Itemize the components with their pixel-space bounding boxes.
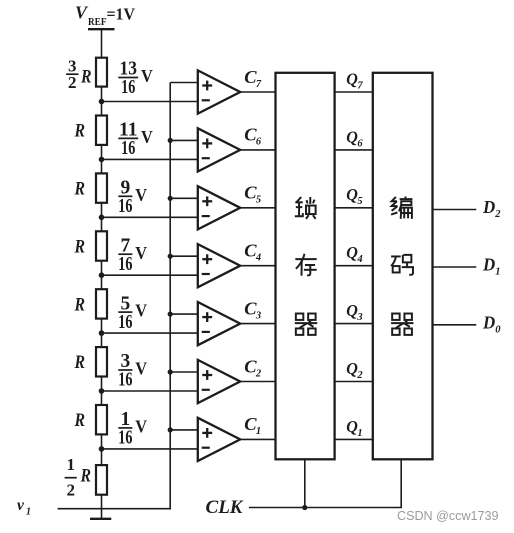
svg-text:V: V xyxy=(135,301,147,321)
svg-text:R: R xyxy=(74,179,85,200)
svg-text:0: 0 xyxy=(495,324,501,335)
svg-text:6: 6 xyxy=(357,138,363,149)
svg-text:16: 16 xyxy=(118,370,132,391)
svg-text:R: R xyxy=(74,236,85,257)
svg-text:REF: REF xyxy=(88,17,107,28)
svg-text:V: V xyxy=(135,417,147,437)
svg-text:1: 1 xyxy=(495,267,500,278)
svg-text:V: V xyxy=(75,3,89,23)
svg-text:V: V xyxy=(141,66,153,86)
svg-text:D: D xyxy=(482,255,495,275)
svg-text:6: 6 xyxy=(256,137,262,148)
svg-text:2: 2 xyxy=(66,481,75,500)
svg-text:3: 3 xyxy=(255,310,261,321)
svg-text:v: v xyxy=(17,497,25,514)
svg-text:16: 16 xyxy=(121,138,135,159)
svg-text:7: 7 xyxy=(357,80,363,91)
svg-text:16: 16 xyxy=(121,77,135,98)
svg-text:=1V: =1V xyxy=(107,4,136,23)
svg-text:V: V xyxy=(135,185,147,205)
svg-text:3: 3 xyxy=(356,312,362,323)
svg-text:Q: Q xyxy=(346,185,358,204)
svg-text:1: 1 xyxy=(357,428,362,439)
svg-text:1: 1 xyxy=(66,455,75,474)
svg-text:2: 2 xyxy=(255,368,262,379)
svg-text:2: 2 xyxy=(356,370,363,381)
svg-text:Q: Q xyxy=(346,69,358,88)
svg-text:2: 2 xyxy=(68,73,77,92)
svg-text:Q: Q xyxy=(346,417,358,436)
svg-text:R: R xyxy=(74,410,85,431)
svg-text:V: V xyxy=(135,359,147,379)
svg-text:R: R xyxy=(74,294,85,315)
svg-text:R: R xyxy=(74,121,85,142)
svg-text:CLK: CLK xyxy=(206,497,244,518)
svg-text:CSDN @ccw1739: CSDN @ccw1739 xyxy=(397,508,499,523)
svg-text:4: 4 xyxy=(356,254,362,265)
svg-text:R: R xyxy=(74,352,85,373)
svg-text:V: V xyxy=(141,127,153,147)
svg-text:7: 7 xyxy=(256,79,262,90)
svg-text:D: D xyxy=(482,312,495,332)
svg-text:Q: Q xyxy=(346,359,358,378)
svg-text:Q: Q xyxy=(346,301,358,320)
svg-text:Q: Q xyxy=(346,127,358,146)
svg-text:2: 2 xyxy=(494,209,501,220)
svg-text:16: 16 xyxy=(118,196,132,217)
svg-text:D: D xyxy=(482,197,495,217)
svg-text:16: 16 xyxy=(118,312,132,333)
svg-text:1: 1 xyxy=(26,507,31,518)
svg-text:16: 16 xyxy=(118,254,132,275)
svg-text:4: 4 xyxy=(255,253,261,264)
svg-text:Q: Q xyxy=(346,243,358,262)
svg-text:R: R xyxy=(80,67,91,88)
svg-text:1: 1 xyxy=(256,426,261,437)
svg-text:5: 5 xyxy=(357,196,362,207)
svg-text:16: 16 xyxy=(118,428,132,449)
svg-text:R: R xyxy=(80,465,91,486)
svg-text:V: V xyxy=(135,243,147,263)
svg-text:5: 5 xyxy=(256,195,261,206)
